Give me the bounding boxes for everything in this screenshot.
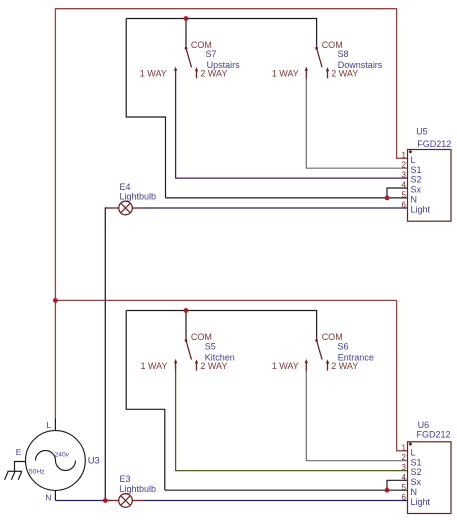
svg-text:S6: S6 bbox=[338, 341, 349, 351]
svg-text:1 WAY: 1 WAY bbox=[140, 69, 167, 79]
wire L drop to U5 pin1 bbox=[396, 8, 398, 158]
svg-text:5: 5 bbox=[402, 483, 407, 492]
node S5 COM junction bbox=[184, 308, 189, 313]
svg-text:1 WAY: 1 WAY bbox=[272, 69, 299, 79]
ground bbox=[5, 462, 26, 480]
node U6 Sx-N junction bbox=[385, 488, 390, 493]
svg-text:5: 5 bbox=[402, 190, 407, 199]
svg-text:2 WAY: 2 WAY bbox=[331, 361, 358, 371]
svg-text:6: 6 bbox=[402, 200, 407, 209]
wire S7 COM drop bbox=[185, 19, 187, 45]
wire COM bus top bbox=[126, 18, 316, 20]
wire L top bus bbox=[55, 8, 396, 10]
wire E4 left navy bbox=[105, 207, 107, 209]
svg-text:Light: Light bbox=[411, 497, 431, 507]
svg-text:2 WAY: 2 WAY bbox=[200, 361, 227, 371]
svg-text:1: 1 bbox=[402, 443, 407, 452]
svg-text:6: 6 bbox=[402, 493, 407, 502]
node E4 return junction bbox=[103, 498, 108, 503]
wire U5 Sx jog bbox=[387, 188, 408, 198]
svg-text:S2: S2 bbox=[411, 175, 422, 185]
svg-text:S5: S5 bbox=[205, 341, 216, 351]
wire S8 1WAY to U5 S1 (gray) bbox=[306, 79, 407, 169]
svg-text:Lightbulb: Lightbulb bbox=[120, 484, 157, 494]
svg-text:1 WAY: 1 WAY bbox=[272, 361, 299, 371]
svg-text:2 WAY: 2 WAY bbox=[200, 69, 227, 79]
svg-text:1: 1 bbox=[402, 151, 407, 160]
svg-text:2: 2 bbox=[402, 453, 407, 462]
wire L drop to U6 pin1 bbox=[396, 300, 398, 450]
svg-text:Light: Light bbox=[411, 204, 431, 214]
svg-text:2: 2 bbox=[402, 161, 407, 170]
svg-text:E: E bbox=[16, 447, 22, 457]
svg-text:N: N bbox=[45, 492, 51, 502]
wire S5 COM drop bbox=[185, 311, 187, 337]
svg-text:Lightbulb: Lightbulb bbox=[120, 192, 157, 202]
svg-text:S8: S8 bbox=[338, 49, 349, 59]
svg-text:E3: E3 bbox=[120, 474, 131, 484]
wire E4 light return down bbox=[104, 207, 106, 500]
wire S5 1WAY to U6 S2 (olive) bbox=[176, 371, 408, 471]
svg-text:FGD212: FGD212 bbox=[417, 139, 451, 149]
power source U3 bbox=[26, 418, 86, 500]
node lower L junction bbox=[53, 298, 58, 303]
svg-text:FGD212: FGD212 bbox=[417, 430, 451, 440]
wire N to U6 pin5 bbox=[165, 489, 408, 491]
svg-text:N: N bbox=[411, 195, 418, 205]
svg-text:U5: U5 bbox=[416, 127, 428, 137]
dimmer U5 box bbox=[408, 150, 452, 222]
wire L left vertical bbox=[54, 8, 56, 418]
wire L lower bus bbox=[55, 299, 396, 301]
wire S7 1WAY to U5 S2 (plum) bbox=[176, 79, 408, 179]
switch S6 bbox=[305, 336, 330, 371]
wire L into U6 pin1 bbox=[396, 450, 408, 452]
wire L into U5 pin1 bbox=[396, 157, 408, 159]
svg-text:N: N bbox=[411, 487, 418, 497]
switch S7 bbox=[174, 44, 198, 79]
wire E3 right to U6 Light bbox=[145, 500, 408, 502]
svg-text:2 WAY: 2 WAY bbox=[331, 69, 358, 79]
lamp E3 bbox=[107, 494, 145, 508]
svg-text:L: L bbox=[46, 420, 51, 430]
svg-text:S1: S1 bbox=[411, 165, 422, 175]
svg-text:Sx: Sx bbox=[411, 185, 422, 195]
svg-text:E4: E4 bbox=[120, 182, 131, 192]
wire N step left vertical top bbox=[126, 19, 165, 198]
svg-text:3: 3 bbox=[402, 463, 407, 472]
wire N bottom bus left bbox=[55, 500, 111, 502]
svg-text:4: 4 bbox=[402, 181, 407, 190]
svg-text:U3: U3 bbox=[88, 456, 100, 467]
svg-text:U6: U6 bbox=[418, 420, 430, 430]
svg-text:S2: S2 bbox=[411, 467, 422, 477]
svg-text:L: L bbox=[411, 447, 416, 457]
svg-text:4: 4 bbox=[402, 473, 407, 482]
wire U6 Sx jog bbox=[387, 480, 408, 490]
wire N step left vertical lower bbox=[126, 311, 165, 491]
switch S5 bbox=[174, 336, 198, 371]
svg-text:50Hz: 50Hz bbox=[29, 469, 45, 476]
svg-text:S1: S1 bbox=[411, 457, 422, 467]
svg-text:1 WAY: 1 WAY bbox=[141, 361, 168, 371]
svg-text:Sx: Sx bbox=[411, 477, 422, 487]
dimmer U6 box bbox=[408, 442, 452, 514]
wire S8 COM drop bbox=[316, 18, 318, 44]
lamp E4 bbox=[106, 201, 145, 215]
svg-text:L: L bbox=[411, 155, 416, 165]
wire COM bus lower bbox=[126, 310, 316, 312]
svg-text:S7: S7 bbox=[206, 49, 217, 59]
wire N to U5 pin5 bbox=[166, 197, 408, 199]
wire E4 right to U5 Light bbox=[145, 207, 408, 209]
node U5 Sx-N junction bbox=[385, 196, 390, 201]
wire S6 1WAY to U6 S1 (gray) bbox=[306, 371, 407, 461]
svg-text:3: 3 bbox=[402, 171, 407, 180]
switch S8 bbox=[305, 44, 330, 79]
svg-text:240v: 240v bbox=[55, 451, 70, 458]
wire S6 COM drop bbox=[316, 310, 318, 336]
node S7 COM junction bbox=[184, 16, 189, 21]
